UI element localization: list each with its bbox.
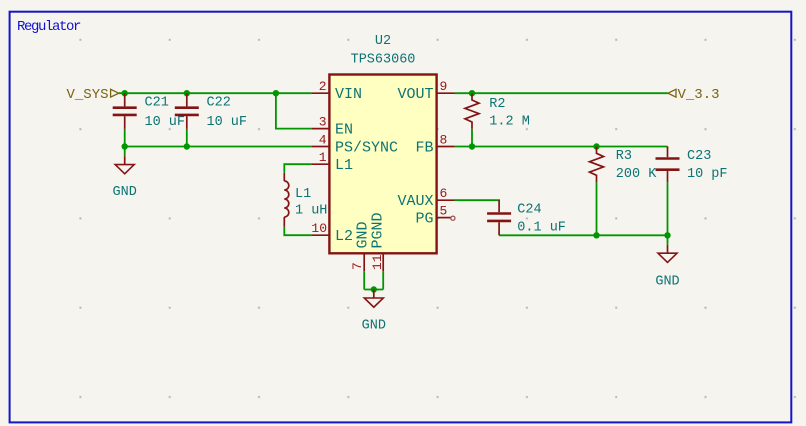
svg-text:EN: EN: [335, 121, 353, 138]
capacitor C22: [175, 93, 199, 129]
svg-text:0.1 uF: 0.1 uF: [517, 220, 566, 235]
svg-text:GND: GND: [655, 274, 679, 289]
svg-text:C24: C24: [517, 202, 541, 217]
svg-text:10 uF: 10 uF: [145, 115, 186, 130]
pin 5 unconnected circle: [451, 216, 455, 220]
svg-text:10 uF: 10 uF: [207, 115, 248, 130]
pin 5 PG stub: [437, 217, 451, 219]
junction at C22 bottom: [184, 143, 190, 149]
resistor R2: [465, 93, 479, 129]
junction at C21 top: [122, 90, 128, 96]
wire PS/SYNC row: [125, 146, 312, 148]
svg-text:TPS63060: TPS63060: [351, 53, 416, 68]
capacitor C24: [487, 200, 511, 235]
capacitor C21: [113, 93, 137, 129]
svg-text:4: 4: [319, 133, 327, 148]
wire pin7 lower segment: [363, 271, 365, 289]
wire C21 bottom lead: [124, 129, 126, 147]
svg-text:PGND: PGND: [369, 212, 386, 248]
capacitor C23: [656, 147, 680, 183]
svg-text:L2: L2: [335, 228, 353, 245]
resistor R3: [590, 147, 604, 183]
svg-text:C23: C23: [687, 149, 711, 164]
pin 10 L2 stub: [312, 234, 330, 236]
svg-text:3: 3: [319, 115, 327, 130]
U2 pin stubs: [312, 93, 455, 271]
wire V_SYS to VIN pin: [119, 92, 312, 94]
wire C22 bottom lead: [186, 129, 188, 147]
wire EN branch vertical+horizontal: [276, 93, 312, 128]
svg-text:V_3.3: V_3.3: [678, 87, 720, 103]
pin names: [335, 86, 434, 249]
pin 8 FB stub: [437, 146, 455, 148]
wire FB row: [455, 146, 668, 148]
junction at R3 bottom: [593, 232, 599, 238]
svg-text:VOUT: VOUT: [397, 86, 433, 103]
power port V_3.3: [668, 87, 720, 103]
svg-text:11: 11: [370, 254, 385, 270]
pin 7 GND stub: [363, 254, 365, 271]
svg-text:GND: GND: [362, 318, 386, 333]
ground bottom (U2): [362, 290, 386, 334]
wire R3 bottom lead: [596, 182, 598, 235]
pin 6 VAUX stub: [437, 199, 455, 201]
svg-text:L1: L1: [295, 187, 311, 202]
svg-text:PS/SYNC: PS/SYNC: [335, 139, 398, 156]
svg-text:GND: GND: [113, 185, 137, 200]
pin 3 EN stub: [312, 128, 330, 130]
svg-text:10: 10: [311, 221, 327, 236]
svg-text:C22: C22: [207, 95, 231, 110]
ground left: [113, 156, 137, 200]
svg-text:9: 9: [440, 79, 448, 94]
svg-text:7: 7: [350, 262, 365, 270]
wire R2 bottom lead: [471, 129, 473, 147]
wire pin11 lower segment: [382, 271, 384, 289]
pin 1 L1 stub: [312, 163, 330, 165]
svg-text:Regulator: Regulator: [17, 19, 81, 35]
wire bottom GND tie: [364, 289, 383, 291]
svg-text:FB: FB: [415, 139, 433, 156]
svg-text:2: 2: [319, 79, 327, 94]
svg-text:VAUX: VAUX: [397, 193, 433, 210]
junction at C22 top: [184, 90, 190, 96]
svg-text:200 K: 200 K: [616, 167, 657, 182]
wire C23 branch down: [667, 147, 669, 149]
junction at R2 top: [469, 90, 475, 96]
junction at C23 bottom: [664, 232, 670, 238]
junction at C21 bottom: [122, 143, 128, 149]
wire GND right drop: [667, 235, 669, 244]
svg-text:8: 8: [440, 133, 448, 148]
pin 2 VIN stub: [312, 92, 330, 94]
wire VAUX to C24: [455, 200, 500, 201]
svg-text:R2: R2: [489, 97, 505, 112]
pin 11 PGND stub: [382, 254, 384, 271]
wire VOUT to V_3.3: [455, 92, 668, 94]
svg-text:U2: U2: [375, 34, 391, 49]
inductor L1: [284, 173, 289, 227]
svg-text:1: 1: [319, 150, 327, 165]
svg-text:PG: PG: [415, 210, 433, 227]
svg-text:V_SYS: V_SYS: [66, 87, 108, 103]
op-amp U2 body: [329, 75, 436, 254]
junction at bottom GND: [371, 286, 377, 292]
svg-text:C21: C21: [145, 95, 169, 110]
wire bottom rail C24 to GND right: [499, 234, 667, 236]
wire C23 bottom to bottom rail: [667, 182, 669, 235]
svg-text:R3: R3: [616, 149, 632, 164]
svg-text:5: 5: [440, 204, 448, 219]
pin 4 PS/SYNC stub: [312, 146, 330, 148]
wire L1 pin to inductor top: [284, 164, 311, 173]
junction at R2 bottom: [469, 143, 475, 149]
svg-text:1 uH: 1 uH: [295, 203, 327, 218]
svg-text:6: 6: [440, 186, 448, 201]
svg-text:VIN: VIN: [335, 86, 362, 103]
wire inductor bottom to L2 pin: [284, 227, 311, 236]
junction at EN branch: [273, 90, 279, 96]
svg-text:10 pF: 10 pF: [687, 167, 728, 182]
power port V_SYS: [66, 87, 118, 103]
pin numbers: [311, 79, 447, 270]
svg-text:1.2 M: 1.2 M: [489, 115, 530, 130]
ground right: [655, 245, 679, 290]
svg-text:L1: L1: [335, 157, 353, 174]
pin 9 VOUT stub: [437, 92, 455, 94]
junction at R3 top: [593, 143, 599, 149]
wire GND left drop: [124, 147, 126, 157]
